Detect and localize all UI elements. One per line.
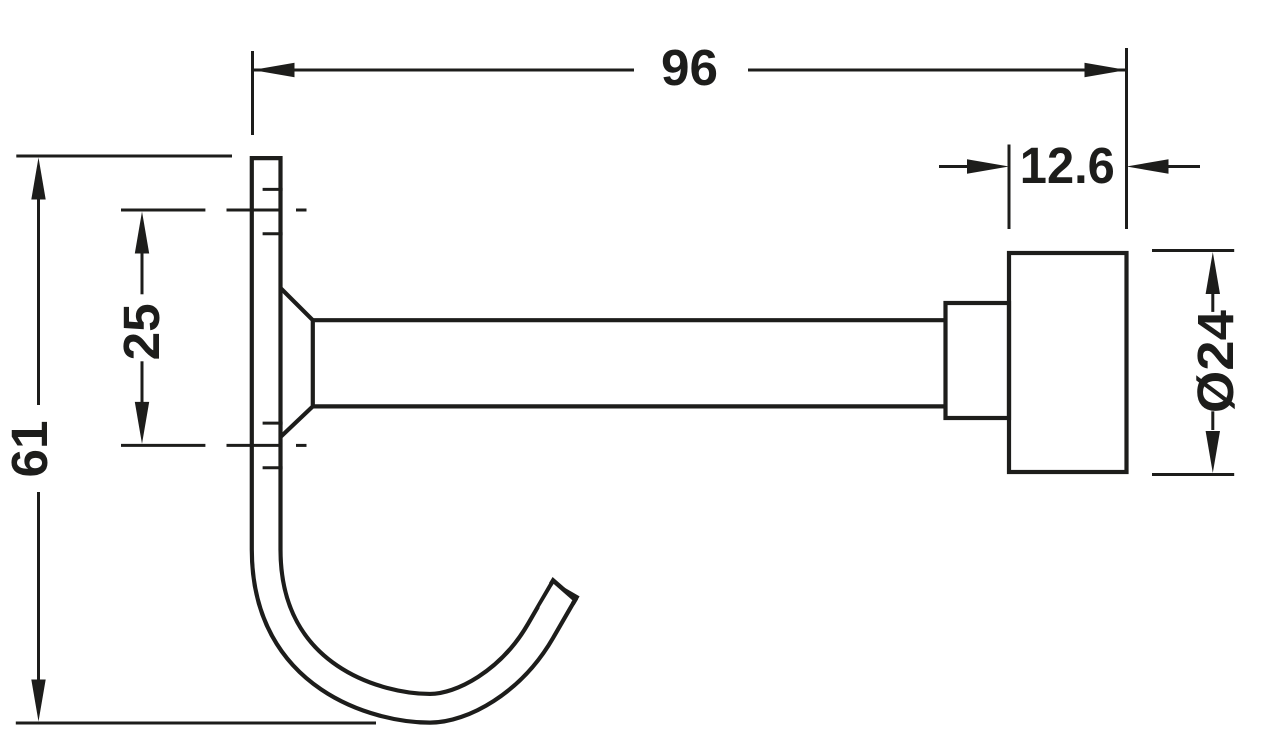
- svg-text:96: 96: [661, 39, 718, 96]
- svg-text:Ø24: Ø24: [1187, 309, 1244, 413]
- svg-text:61: 61: [1, 421, 58, 478]
- svg-text:12.6: 12.6: [1020, 137, 1115, 194]
- svg-text:25: 25: [113, 303, 170, 360]
